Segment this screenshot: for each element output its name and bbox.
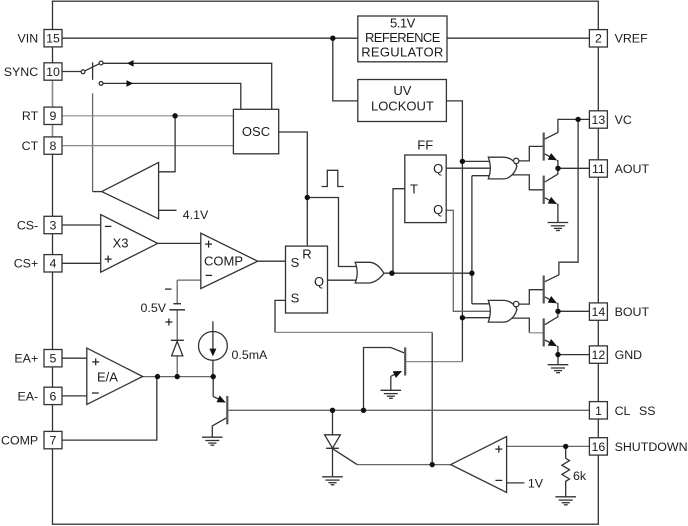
svg-text:Q: Q xyxy=(433,161,443,176)
svg-text:E/A: E/A xyxy=(97,370,118,385)
svg-text:8: 8 xyxy=(50,139,57,153)
svg-text:GND: GND xyxy=(615,348,643,362)
svg-text:COMP: COMP xyxy=(1,434,38,448)
svg-text:CT: CT xyxy=(22,139,39,153)
svg-text:1: 1 xyxy=(595,404,602,418)
svg-text:0.5V: 0.5V xyxy=(141,301,167,315)
svg-text:3: 3 xyxy=(50,218,57,232)
svg-text:CS+: CS+ xyxy=(14,257,38,271)
svg-text:12: 12 xyxy=(592,348,606,362)
svg-text:OSC: OSC xyxy=(242,124,270,139)
svg-text:10: 10 xyxy=(46,65,60,79)
svg-text:COMP: COMP xyxy=(204,254,243,269)
svg-text:REFERENCE: REFERENCE xyxy=(365,30,441,45)
svg-text:R: R xyxy=(302,247,311,262)
svg-text:SS: SS xyxy=(639,404,656,418)
svg-text:S: S xyxy=(291,291,300,306)
svg-text:14: 14 xyxy=(592,305,606,319)
svg-text:EA+: EA+ xyxy=(14,352,38,366)
svg-text:EA-: EA- xyxy=(18,389,39,403)
svg-text:0.5mA: 0.5mA xyxy=(232,348,269,362)
svg-text:15: 15 xyxy=(46,32,60,46)
svg-text:RT: RT xyxy=(22,109,39,123)
svg-text:5: 5 xyxy=(50,352,57,366)
svg-text:13: 13 xyxy=(592,113,606,127)
svg-text:REGULATOR: REGULATOR xyxy=(361,44,443,59)
svg-text:CS-: CS- xyxy=(17,218,38,232)
svg-text:SYNC: SYNC xyxy=(4,65,38,79)
svg-text:1V: 1V xyxy=(528,477,544,491)
svg-text:5.1V: 5.1V xyxy=(390,16,416,31)
svg-text:FF: FF xyxy=(417,138,433,153)
svg-text:T: T xyxy=(410,181,418,196)
svg-text:S: S xyxy=(291,255,300,270)
svg-text:AOUT: AOUT xyxy=(615,162,650,176)
svg-text:16: 16 xyxy=(592,440,606,454)
svg-text:6k: 6k xyxy=(573,469,587,483)
svg-text:LOCKOUT: LOCKOUT xyxy=(371,98,434,113)
svg-text:Q: Q xyxy=(433,202,443,217)
svg-text:4.1V: 4.1V xyxy=(183,208,209,222)
svg-text:9: 9 xyxy=(50,109,57,123)
svg-text:VREF: VREF xyxy=(615,32,648,46)
svg-text:Q: Q xyxy=(314,274,324,289)
svg-text:BOUT: BOUT xyxy=(615,305,650,319)
svg-text:UV: UV xyxy=(393,83,411,98)
svg-text:CL: CL xyxy=(615,404,631,418)
svg-text:X3: X3 xyxy=(113,235,129,250)
svg-text:11: 11 xyxy=(592,162,605,176)
svg-text:7: 7 xyxy=(50,434,57,448)
svg-text:SHUTDOWN: SHUTDOWN xyxy=(615,440,688,454)
svg-text:2: 2 xyxy=(595,32,602,46)
svg-text:VC: VC xyxy=(615,113,632,127)
svg-text:4: 4 xyxy=(50,257,57,271)
svg-text:6: 6 xyxy=(50,389,57,403)
svg-text:VIN: VIN xyxy=(18,32,39,46)
